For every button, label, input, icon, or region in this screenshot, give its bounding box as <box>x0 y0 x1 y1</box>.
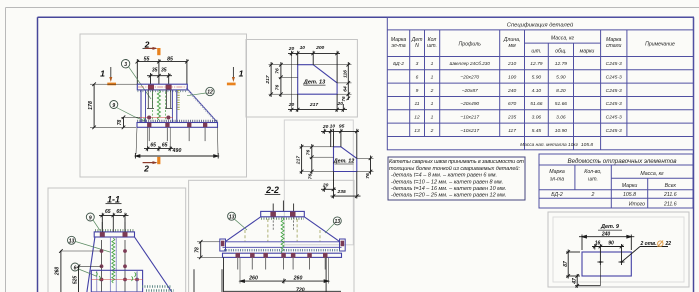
balloon 9 <box>110 101 118 109</box>
svg-text:Дет. 12: Дет. 12 <box>333 158 355 164</box>
svg-text:525: 525 <box>72 276 78 285</box>
base plate <box>137 123 218 128</box>
weld ticks on base plate top <box>137 120 217 123</box>
dim 78 vertical <box>121 116 140 130</box>
dimension 47 <box>575 265 600 288</box>
svg-text:Всех: Всех <box>665 183 677 189</box>
svg-text:211.6: 211.6 <box>663 201 677 207</box>
svg-text:Профиль: Профиль <box>458 42 481 48</box>
svg-text:С245-3: С245-3 <box>606 75 622 81</box>
svg-text:268: 268 <box>55 267 61 277</box>
detail 9 drawing <box>563 224 671 288</box>
svg-text:2: 2 <box>430 128 434 134</box>
lower connection box <box>91 270 142 292</box>
svg-text:шт.: шт. <box>531 49 541 55</box>
svg-text:-деталь t=4 – 8 мм. – катет: -деталь t=4 – 8 мм. – катет равен 6 мм. <box>391 173 497 179</box>
svg-text:100: 100 <box>508 75 516 81</box>
svg-text:12: 12 <box>414 114 420 120</box>
dim 178 vertical <box>90 82 137 129</box>
group box detail 12 <box>284 120 353 245</box>
svg-text:116: 116 <box>342 70 348 78</box>
dim 268 vertical <box>59 249 63 292</box>
balloon 12 leader <box>187 93 206 96</box>
bolt circles <box>147 116 151 120</box>
svg-text:217: 217 <box>309 102 318 108</box>
svg-text:78: 78 <box>117 120 123 126</box>
svg-text:260: 260 <box>248 276 258 282</box>
detail 13 bottom dims 20 217 20 <box>288 56 347 112</box>
section marker 2 top: orange bar <box>157 48 160 55</box>
bolts in body <box>100 249 139 281</box>
balloon 6 <box>71 263 79 271</box>
svg-text:35: 35 <box>161 68 167 74</box>
svg-text:1: 1 <box>431 101 434 107</box>
trapezoid slopes <box>223 217 342 248</box>
svg-text:БД-2: БД-2 <box>393 61 404 67</box>
svg-text:2: 2 <box>591 192 595 198</box>
svg-text:12.79: 12.79 <box>530 61 543 67</box>
balloon 9 leader <box>117 108 145 121</box>
svg-text:Марка: Марка <box>549 169 565 175</box>
svg-text:2: 2 <box>430 88 434 94</box>
dim 525 vertical <box>77 265 81 292</box>
svg-text:Масса нап. металла 10кг: Масса нап. металла 10кг <box>520 142 579 148</box>
detail 13 top dims 20 10 200 <box>288 51 340 83</box>
bolt vertical lines 1-1 <box>102 240 138 292</box>
svg-text:−20х490: −20х490 <box>460 101 479 107</box>
svg-text:47: 47 <box>572 278 578 285</box>
svg-text:85: 85 <box>167 56 173 62</box>
svg-text:мм: мм <box>509 43 517 49</box>
svg-text:240: 240 <box>507 88 516 94</box>
svg-text:13: 13 <box>414 128 420 134</box>
columns below <box>194 257 326 292</box>
svg-text:Марки: Марки <box>622 183 638 189</box>
svg-text:76: 76 <box>308 174 314 180</box>
svg-text:240: 240 <box>601 231 611 237</box>
hatch along bottom right slope <box>142 285 172 288</box>
red bolt line lower box <box>91 279 142 281</box>
svg-text:Катеты сварных швов принимать: Катеты сварных швов принимать в зависимо… <box>389 159 524 165</box>
svg-text:117: 117 <box>508 128 516 134</box>
svg-text:Ведомость отправочных элементо: Ведомость отправочных элементов <box>568 158 678 165</box>
hole 2 <box>619 259 625 265</box>
svg-text:С245-3: С245-3 <box>606 128 622 134</box>
left flange plate <box>220 239 226 251</box>
svg-text:шт.: шт. <box>427 43 437 49</box>
svg-text:76: 76 <box>341 96 346 102</box>
gusset slope weld ticks <box>188 90 217 122</box>
svg-text:65: 65 <box>105 209 111 215</box>
centre weld 1-1 <box>112 238 115 283</box>
detail 13 plate <box>298 65 337 95</box>
group box detail 13 <box>246 40 357 118</box>
svg-text:3.06: 3.06 <box>556 114 566 120</box>
svg-text:4.10: 4.10 <box>532 88 542 94</box>
svg-text:Итого: Итого <box>629 201 645 207</box>
svg-text:65: 65 <box>116 209 122 215</box>
svg-text:Спецификация деталей: Спецификация деталей <box>507 22 574 29</box>
svg-text:51.66: 51.66 <box>530 101 543 107</box>
svg-text:общ.: общ. <box>555 49 567 55</box>
specification table text <box>391 22 675 55</box>
svg-text:235: 235 <box>337 189 346 195</box>
svg-text:10.90: 10.90 <box>555 128 568 134</box>
base plate bolts 2-2 <box>236 253 328 258</box>
svg-text:2 отв.: 2 отв. <box>640 241 657 247</box>
svg-text:−10х217: −10х217 <box>460 128 479 134</box>
svg-text:−20х270: −20х270 <box>460 75 479 81</box>
svg-text:3: 3 <box>124 62 127 68</box>
weld ticks on base top 2-2 <box>224 249 341 251</box>
weld ticks right of column <box>177 90 179 110</box>
svg-text:шт.: шт. <box>588 177 598 183</box>
group box main view <box>80 34 247 177</box>
detail 13 right dims 116 64 <box>313 62 351 100</box>
top plate bolts <box>270 212 276 217</box>
svg-text:490: 490 <box>172 148 182 154</box>
svg-text:90: 90 <box>608 241 614 247</box>
svg-text:3: 3 <box>416 61 419 67</box>
svg-text:5.45: 5.45 <box>532 128 542 134</box>
hole leader 2 holes d22 <box>622 247 669 263</box>
balloon 13 leader <box>76 242 111 253</box>
svg-text:марки: марки <box>580 49 595 55</box>
base plate 2-2 <box>223 253 342 257</box>
dim row 35 35 <box>147 64 172 84</box>
svg-text:13: 13 <box>229 215 235 221</box>
svg-text:толщины более тонкой из сварив: толщины более тонкой из свариваемых дета… <box>389 165 520 172</box>
top plate red centerline <box>138 86 187 88</box>
bolt shanks below 2-2 <box>238 257 326 269</box>
group box detail 9 <box>548 212 689 287</box>
svg-text:Масса, кг: Масса, кг <box>640 171 664 177</box>
svg-text:55: 55 <box>144 56 150 62</box>
balloon 13 <box>68 236 76 244</box>
svg-text:217: 217 <box>295 156 301 165</box>
weld notes text <box>389 159 524 199</box>
dimension 87 <box>566 250 580 279</box>
balloon 6 leader <box>79 269 97 276</box>
weld ticks under top plate <box>138 90 188 92</box>
svg-text:13: 13 <box>335 219 341 225</box>
group box section 2-2 <box>189 180 354 292</box>
svg-text:Швеллер 24Сб.230: Швеллер 24Сб.230 <box>449 61 490 66</box>
balloon 9 <box>86 213 94 221</box>
weld ticks above plate <box>95 229 134 231</box>
svg-text:9: 9 <box>416 88 419 94</box>
svg-text:−10х217: −10х217 <box>460 114 479 120</box>
weld notes box <box>388 157 525 200</box>
section marker 2 top: arrow <box>145 47 156 49</box>
svg-text:эл-та: эл-та <box>391 43 405 49</box>
column hidden bolt lines <box>147 90 172 109</box>
svg-text:76: 76 <box>365 173 371 179</box>
svg-text:200: 200 <box>315 45 324 51</box>
detail 12 left dims 217 76 <box>300 144 334 174</box>
svg-text:1: 1 <box>431 114 434 120</box>
svg-text:22: 22 <box>665 241 672 247</box>
svg-text:217: 217 <box>265 75 271 84</box>
dimension 16 90 <box>592 244 624 259</box>
svg-text:51.66: 51.66 <box>555 101 568 107</box>
detail 12 bottom dims 20 235 <box>321 172 361 199</box>
svg-text:С245-3: С245-3 <box>606 114 622 120</box>
section marker 2 bottom: orange bar <box>157 157 160 164</box>
svg-text:N: N <box>415 43 419 49</box>
svg-text:Дет. 13: Дет. 13 <box>303 80 326 86</box>
svg-text:670: 670 <box>508 101 516 107</box>
svg-text:12.79: 12.79 <box>555 61 568 67</box>
anchor bolt shanks below <box>149 127 205 141</box>
svg-text:-деталь t=14 – 16 мм. – катет: -деталь t=14 – 16 мм. – катет равен 10 м… <box>391 186 506 192</box>
svg-text:С245-3: С245-3 <box>606 88 622 94</box>
svg-text:1: 1 <box>431 61 434 67</box>
svg-text:76: 76 <box>306 150 312 156</box>
bolt stubs above top plate <box>273 201 293 212</box>
dim 720 bottom partial <box>224 290 341 292</box>
top plate of 1-1 <box>94 232 134 237</box>
body trapezoid edges <box>87 237 172 292</box>
dim 260 260 <box>240 258 329 284</box>
svg-text:235: 235 <box>507 114 516 120</box>
svg-text:Дет. 9: Дет. 9 <box>600 224 620 230</box>
svg-text:76: 76 <box>275 85 281 91</box>
svg-text:105.8: 105.8 <box>623 192 636 198</box>
svg-text:78: 78 <box>194 247 200 253</box>
svg-text:1: 1 <box>100 69 105 79</box>
svg-text:БД-2: БД-2 <box>551 192 563 198</box>
svg-text:стали: стали <box>606 43 622 49</box>
svg-text:2-2: 2-2 <box>265 185 279 195</box>
shipping elements table <box>539 154 693 208</box>
balloon 13 left leader <box>235 219 248 230</box>
svg-text:210: 210 <box>507 61 516 67</box>
weld ticks below top plate <box>261 218 304 220</box>
svg-text:−20х87: −20х87 <box>462 88 478 94</box>
svg-text:9: 9 <box>112 103 115 109</box>
svg-text:13: 13 <box>69 239 75 245</box>
dimension 240 <box>579 235 634 251</box>
svg-text:95: 95 <box>339 124 345 130</box>
bolt row red line <box>139 117 173 119</box>
detail 12 top dims 20 10 95 <box>321 129 359 159</box>
svg-text:12: 12 <box>207 90 213 96</box>
svg-text:2: 2 <box>143 163 149 173</box>
svg-text:2: 2 <box>144 39 150 49</box>
balloon 13 left <box>228 212 236 220</box>
section marker 2 bottom: arrow <box>143 162 156 164</box>
diameter symbol <box>658 240 664 246</box>
svg-text:64: 64 <box>342 86 348 92</box>
svg-text:11: 11 <box>414 101 419 107</box>
svg-text:5.90: 5.90 <box>556 75 566 81</box>
svg-text:9: 9 <box>89 215 92 221</box>
top plate <box>137 84 187 90</box>
hole 1 <box>597 259 603 265</box>
dim 65 65 below <box>144 128 174 152</box>
svg-text:76: 76 <box>275 68 281 74</box>
top plate bolts <box>148 85 154 90</box>
svg-text:6: 6 <box>74 265 77 271</box>
detail 9 plate <box>582 252 631 276</box>
svg-text:1: 1 <box>239 69 244 79</box>
dim 490 <box>135 128 218 159</box>
top plate 2-2 <box>261 211 305 216</box>
gusset slope <box>187 88 218 122</box>
balloon 3 <box>121 60 129 68</box>
svg-text:20: 20 <box>336 101 343 107</box>
group box section 1-1 <box>48 188 186 292</box>
detail 13 left dims 217 76 76 <box>269 62 298 97</box>
svg-text:-деталь t=20 – 25 мм. – катет: -деталь t=20 – 25 мм. – катет равен 12 м… <box>391 193 506 199</box>
svg-text:1-1: 1-1 <box>107 195 120 205</box>
balloon 9 leader <box>93 220 100 231</box>
svg-text:С245-3: С245-3 <box>606 101 622 107</box>
svg-text:720: 720 <box>296 288 305 292</box>
centre weld 2-2 <box>281 218 284 254</box>
svg-text:16: 16 <box>595 241 601 247</box>
svg-text:8.20: 8.20 <box>556 88 566 94</box>
right flange plate <box>340 239 346 251</box>
svg-text:65: 65 <box>150 143 156 149</box>
svg-text:Примечание: Примечание <box>645 42 675 48</box>
balloon 3 leader <box>129 67 151 99</box>
svg-text:3.06: 3.06 <box>532 114 542 120</box>
green weld mark at column base <box>144 118 145 123</box>
svg-text:5.90: 5.90 <box>532 75 542 81</box>
svg-text:Масса, кг: Масса, кг <box>551 36 575 42</box>
svg-text:35: 35 <box>152 68 158 74</box>
balloon 13 right leader <box>325 224 334 233</box>
svg-text:10: 10 <box>300 45 306 51</box>
detail 12 plate <box>334 147 357 172</box>
bolt stubs below top plate <box>273 217 293 231</box>
svg-text:20: 20 <box>288 46 295 52</box>
svg-text:1: 1 <box>431 75 434 81</box>
inner web lines <box>110 237 116 292</box>
svg-text:С245-3: С245-3 <box>606 61 622 67</box>
svg-text:105.8: 105.8 <box>581 142 594 148</box>
svg-text:260: 260 <box>293 276 303 282</box>
detail 12 right dim 76 <box>357 156 374 175</box>
anchor bolt squares <box>147 123 151 127</box>
hidden dash lines inside <box>245 219 320 241</box>
svg-text:20: 20 <box>288 102 295 108</box>
column centre weld <box>157 90 160 120</box>
svg-text:20: 20 <box>322 124 329 130</box>
svg-text:10: 10 <box>330 124 336 130</box>
column body <box>141 90 177 123</box>
svg-text:эл-та: эл-та <box>550 177 564 183</box>
green weld marks lower box <box>96 272 136 281</box>
balloon 12 <box>206 87 214 95</box>
dim 65 65 top <box>99 213 129 231</box>
svg-text:6: 6 <box>416 75 419 81</box>
svg-text:178: 178 <box>88 101 94 110</box>
dim 78 left <box>197 240 222 259</box>
extension line at bolts row <box>60 250 102 252</box>
svg-text:87: 87 <box>563 261 569 267</box>
svg-text:Кол-во,: Кол-во, <box>584 169 601 175</box>
specification table grid <box>387 17 693 150</box>
svg-text:-деталь t=10 – 12 мм. – катет: -деталь t=10 – 12 мм. – катет равен 8 мм… <box>391 179 503 185</box>
svg-text:20: 20 <box>322 183 329 189</box>
balloon 13 right <box>333 217 341 225</box>
svg-text:65: 65 <box>162 143 168 149</box>
bolt stubs above plate <box>102 218 125 232</box>
svg-text:211.6: 211.6 <box>663 192 677 198</box>
top dim row 55 85 <box>136 59 189 84</box>
